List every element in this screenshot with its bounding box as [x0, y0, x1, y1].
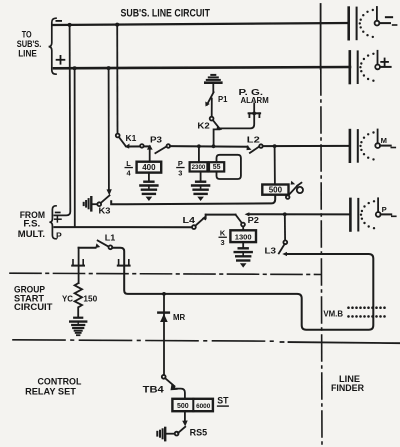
- svg-text:YC: YC: [62, 293, 73, 303]
- earth at contact K3 (horizontal): [84, 197, 98, 210]
- svg-text:150: 150: [83, 293, 97, 303]
- svg-text:TB4: TB4: [143, 385, 164, 395]
- svg-text:500: 500: [177, 403, 189, 410]
- wire: riser P3 to coil L 400: [149, 149, 151, 162]
- node: junction dot 2300 riser: [197, 144, 201, 148]
- label P.G. ALARM: [239, 87, 269, 105]
- node: junction dot pos/V2: [73, 66, 77, 70]
- battery mark minus at F.S. mult wire: [55, 212, 61, 214]
- boundary chain line lower (group start): [13, 340, 278, 341]
- boundary chain line bottom right (line finder): [281, 342, 400, 343]
- svg-text:F.S.: F.S.: [23, 219, 40, 229]
- line finder bank pos: [350, 51, 391, 83]
- label FROM F.S. MULT.: [18, 210, 45, 239]
- label P/3: [176, 159, 184, 177]
- earth above contact P1 (inverted): [205, 75, 221, 92]
- svg-text:ST: ST: [217, 395, 229, 405]
- svg-text:500: 500: [269, 186, 283, 195]
- contact P1: [205, 92, 213, 116]
- svg-text:3: 3: [178, 169, 182, 178]
- svg-text:L1: L1: [105, 234, 116, 243]
- svg-text:L2: L2: [247, 135, 260, 145]
- label TO SUB'S. LINE: [17, 30, 42, 59]
- U-link terminal on L1 right leg: [118, 260, 130, 266]
- svg-text:6000: 6000: [196, 403, 211, 410]
- label K/3: [219, 229, 227, 248]
- wire: short-circuit loop around winding 55: [217, 155, 241, 179]
- label GROUP START CIRCUIT: [14, 284, 53, 312]
- contact L2: [247, 144, 263, 153]
- node: junction dot K2 drop: [212, 144, 216, 148]
- line finder bank M: [350, 130, 395, 162]
- battery/earth below coil 2300: [192, 172, 209, 202]
- svg-text:M: M: [381, 136, 387, 145]
- svg-text:3: 3: [221, 238, 225, 247]
- svg-text:SUB'S. LINE CIRCUIT: SUB'S. LINE CIRCUIT: [121, 7, 211, 19]
- contact K3: [97, 195, 109, 206]
- svg-text:FINDER: FINDER: [331, 383, 365, 393]
- relay coil 500: [262, 185, 288, 195]
- rectifier MR: [163, 294, 165, 375]
- contact K1: [116, 134, 130, 149]
- wire: pos line down to F.S. mult P wire (V2): [74, 68, 76, 227]
- svg-text:P: P: [178, 159, 183, 168]
- node: junction dot 500 riser: [273, 144, 277, 148]
- brace for FROM F.S. MULT.: [49, 206, 56, 239]
- wire: F.S. mult P wire to L4: [54, 226, 192, 228]
- wire: P2 to line finder bank P: [249, 213, 350, 215]
- contact L1: [79, 241, 113, 250]
- svg-text:L: L: [126, 159, 131, 168]
- wire: K3 to coil 500: [111, 195, 275, 205]
- node: junction dot neg/V1: [68, 23, 72, 27]
- svg-text:P: P: [382, 205, 387, 214]
- svg-text:P: P: [56, 231, 62, 241]
- wire: riser pos line down to K3 with arrowhead: [108, 68, 110, 190]
- contact L3: [279, 240, 287, 256]
- jack/test symbol right of 500: [286, 181, 303, 199]
- battery/earth below coil 1300: [235, 242, 252, 268]
- wire: K1 to P3: [129, 145, 150, 147]
- label LINE FINDER: [331, 374, 365, 393]
- line finder bank neg: [349, 7, 397, 39]
- svg-text:P3: P3: [150, 135, 162, 145]
- svg-text:2300: 2300: [192, 164, 206, 171]
- svg-text:CONTROL: CONTROL: [38, 376, 83, 386]
- svg-text:RS5: RS5: [190, 428, 208, 438]
- svg-text:K3: K3: [99, 206, 111, 216]
- wire: L1 right leg down and to VM.B loop and L3: [112, 248, 373, 330]
- svg-text:CIRCUIT: CIRCUIT: [14, 302, 53, 312]
- svg-text:P2: P2: [248, 215, 260, 225]
- svg-text:K: K: [220, 229, 226, 238]
- node: junction dot neg/K1 riser: [115, 23, 119, 27]
- svg-text:K1: K1: [126, 133, 137, 143]
- earth at RS5 (horizontal): [157, 428, 165, 440]
- polarity plus label on sub line: [57, 56, 65, 64]
- svg-text:RELAY SET: RELAY SET: [25, 387, 76, 397]
- U-link terminal on L1 left leg: [72, 260, 84, 266]
- node: small circle on wire left of P3: [140, 144, 144, 148]
- boundary chain line vertical (line finder): [320, 4, 322, 69]
- label CONTROL RELAY SET: [25, 376, 82, 396]
- contact K2: [210, 113, 254, 146]
- line finder bank P: [350, 198, 395, 230]
- svg-text:TO: TO: [22, 30, 32, 40]
- svg-text:1300: 1300: [235, 232, 252, 241]
- wire: neg line down to F.S. mult (V1): [54, 25, 70, 216]
- svg-text:P1: P1: [218, 94, 228, 104]
- contact L4: [192, 215, 207, 229]
- svg-text:VM.B: VM.B: [323, 309, 343, 318]
- P.G. alarm take-off symbol: [249, 103, 261, 117]
- wire: L1 left leg down to resistor YC: [78, 248, 80, 283]
- wire: L2 to line finder bank M: [263, 145, 349, 147]
- wire: riser L2 junction down to coil 500: [274, 146, 276, 184]
- relay coil P winding 55: [209, 162, 224, 171]
- wire: L4 to P2: [206, 214, 236, 216]
- node: junction dot pos/K3 riser: [107, 66, 111, 70]
- relay coil ST 500/6000: [172, 399, 213, 411]
- svg-text:L3: L3: [265, 246, 277, 256]
- relay coil P winding 2300: [190, 162, 208, 171]
- battery/earth below coil 400: [140, 173, 157, 201]
- contact P3: [147, 144, 170, 153]
- node: junction dot L3 riser: [283, 212, 287, 216]
- battery mark plus at F.S. mult wire: [55, 217, 61, 222]
- earth below resistor YC: [70, 318, 86, 336]
- svg-text:L4: L4: [183, 215, 196, 225]
- relay coil L 400: [137, 162, 162, 173]
- contact P2: [236, 212, 250, 230]
- node: junction dot MR tap: [162, 292, 166, 296]
- svg-text:55: 55: [213, 164, 221, 171]
- boundary chain line upper (group start): [10, 273, 321, 274]
- polarity minus label on sub line: [56, 20, 63, 22]
- svg-text:ALARM: ALARM: [241, 95, 269, 105]
- wire: riser P2 wire down to L3: [284, 214, 286, 240]
- svg-text:MULT.: MULT.: [18, 229, 45, 239]
- contact RS5: [166, 411, 188, 435]
- wire: negative subscriber line (top): [53, 23, 349, 25]
- wire: P3 to K2 junction to L2: [170, 145, 248, 148]
- svg-text:K2: K2: [197, 120, 210, 130]
- svg-text:400: 400: [142, 163, 156, 172]
- label L/4: [125, 159, 133, 177]
- wire: riser to coil P 2300: [198, 146, 200, 162]
- brace for TO SUB'S. LINE: [49, 18, 56, 74]
- relay coil K 1300: [230, 230, 256, 242]
- svg-text:LINE: LINE: [18, 49, 37, 59]
- resistor YC 150: [75, 283, 82, 317]
- wire: neg line down to contact K1: [116, 25, 118, 134]
- wire: positive subscriber line: [54, 67, 350, 68]
- contact TB4: [162, 375, 185, 399]
- svg-text:MR: MR: [173, 313, 185, 322]
